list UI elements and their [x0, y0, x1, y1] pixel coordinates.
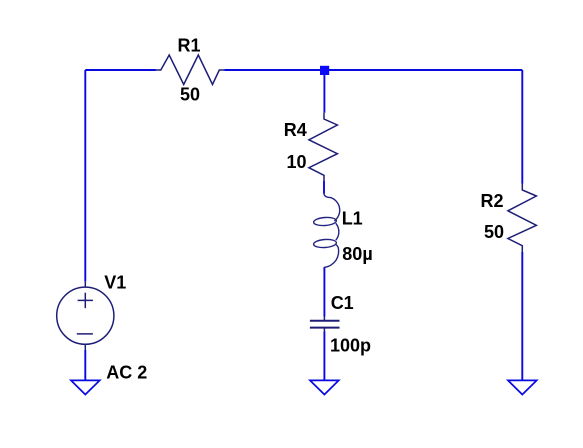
wire L1 to C1 — [323, 267, 325, 317]
svg-text:100p: 100p — [330, 336, 371, 356]
svg-text:50: 50 — [180, 84, 200, 104]
node junction square — [320, 66, 329, 75]
wire C1 to ground — [323, 332, 325, 381]
wire top-right horizontal — [224, 69, 522, 71]
svg-text:50: 50 — [484, 222, 504, 242]
wire top-left horizontal — [85, 69, 156, 71]
svg-text:V1: V1 — [104, 273, 126, 293]
capacitor C1 — [310, 317, 340, 332]
ground under V1 — [71, 380, 100, 394]
svg-text:80µ: 80µ — [342, 244, 372, 264]
svg-text:L1: L1 — [342, 209, 363, 229]
inductor L1 — [313, 194, 339, 268]
resistor R2 — [508, 184, 537, 253]
wire right vertical — [521, 70, 523, 184]
svg-text:10: 10 — [287, 152, 307, 172]
resistor R4 — [309, 113, 338, 181]
svg-text:AC 2: AC 2 — [106, 363, 147, 383]
ground under C1 — [310, 380, 339, 394]
resistor R1 — [156, 55, 224, 85]
wire left vertical — [84, 70, 86, 281]
voltage source V1 — [57, 281, 114, 350]
wire R2 to ground — [521, 252, 523, 380]
wire R4 to L1 — [323, 181, 325, 194]
svg-text:R2: R2 — [481, 191, 504, 211]
ground under R2 — [508, 380, 537, 394]
wire node to R4 — [323, 70, 325, 113]
svg-text:R4: R4 — [284, 120, 307, 140]
svg-text:R1: R1 — [178, 35, 201, 55]
svg-text:C1: C1 — [331, 293, 354, 313]
wire V1 to ground — [84, 350, 86, 380]
